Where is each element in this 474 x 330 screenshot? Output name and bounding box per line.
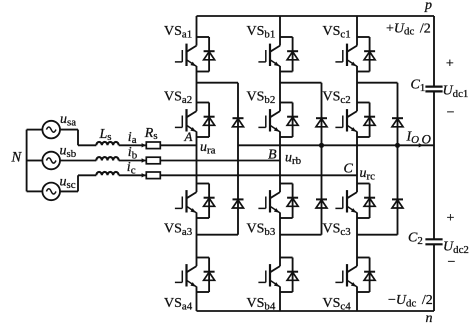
svg-text:−: − — [447, 106, 455, 121]
svg-text:p: p — [424, 0, 432, 13]
svg-text:O: O — [422, 132, 432, 147]
svg-text:+: + — [447, 211, 455, 226]
svg-text:C: C — [344, 162, 354, 177]
svg-text:n: n — [426, 311, 433, 326]
svg-text:N: N — [11, 150, 23, 166]
svg-text:−: − — [448, 255, 456, 270]
svg-text:+: + — [446, 57, 454, 72]
svg-text:A: A — [184, 129, 193, 144]
svg-text:B: B — [268, 148, 277, 163]
